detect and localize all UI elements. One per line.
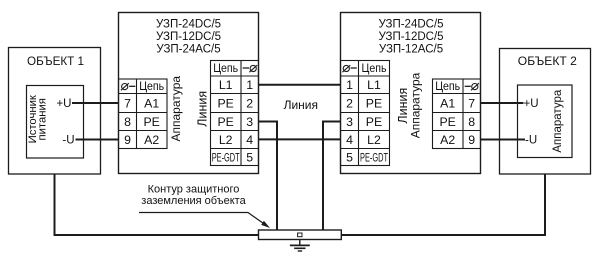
terminal -U of object 2: [525, 135, 537, 147]
svg-text:А1: А1: [144, 96, 159, 110]
U2 apparatus header terminal symbol –⌀: [465, 83, 479, 90]
U2 pin 7: [468, 96, 475, 110]
U1 pin 4: [246, 133, 253, 147]
svg-text:7: 7: [124, 96, 131, 110]
label U2 type УЗП-24DC/5 УЗП-12DC/5 УЗП-12AC/5: [378, 19, 443, 56]
U2 pin 4: [346, 133, 353, 147]
svg-text:А2: А2: [440, 133, 455, 147]
U1 pin 3: [246, 115, 253, 129]
svg-text:L2: L2: [367, 133, 381, 147]
U1 pin PE row3 label: [217, 115, 233, 129]
wire object 2 to earth bus: [341, 174, 545, 235]
U2 pin 3: [346, 115, 353, 129]
label Источник питания: [27, 95, 49, 143]
svg-text:4: 4: [246, 133, 253, 147]
U2 label Линия: [396, 88, 410, 124]
svg-text:УЗП-24АС/5: УЗП-24АС/5: [156, 44, 220, 56]
U1 pin 9 net А2: [144, 133, 159, 147]
U2 pin PE row3 label: [366, 115, 382, 129]
svg-text:PE: PE: [143, 115, 159, 129]
U1 apparatus-side terminal table grid: [119, 79, 168, 149]
svg-text:Аппаратура: Аппаратура: [552, 89, 564, 152]
device U1 УЗП enclosure: [119, 13, 259, 174]
svg-text:заземления объекта: заземления объекта: [141, 195, 246, 207]
svg-text:УЗП-12АС/5: УЗП-12АС/5: [379, 44, 443, 56]
svg-text:9: 9: [468, 133, 475, 147]
U1 apparatus header terminal symbol ⌀–: [121, 83, 135, 90]
U2 apparatus header label Цепь: [435, 79, 460, 93]
U1 line-side terminal table grid: [211, 61, 259, 166]
svg-text:Линия: Линия: [284, 98, 318, 112]
svg-text:3: 3: [246, 115, 253, 129]
U2 pin L1 label: [367, 78, 381, 92]
svg-text:PE-GDT: PE-GDT: [212, 152, 240, 164]
U2 pin 2: [346, 96, 353, 110]
wire L2 line conductor: [259, 138, 341, 140]
U1 line header terminal symbol –⌀: [243, 65, 258, 72]
svg-text:L2: L2: [219, 133, 233, 147]
svg-text:9: 9: [124, 133, 131, 147]
svg-text:PE: PE: [217, 96, 233, 110]
svg-text:УЗП-24DC/5: УЗП-24DC/5: [378, 19, 443, 31]
U1 label Линия: [195, 91, 209, 127]
apparatus box of object 2: [518, 85, 573, 158]
svg-text:1: 1: [246, 78, 253, 92]
svg-text:PE: PE: [366, 115, 382, 129]
svg-text:Цепь: Цепь: [139, 79, 164, 93]
annotation Контур защитного заземления объекта: [141, 184, 246, 208]
label ОБЪЕКТ 2: [518, 54, 577, 68]
wire PE right drop to earth bus: [323, 122, 341, 232]
U1 pin 2: [246, 96, 253, 110]
device U2 УЗП enclosure: [341, 13, 481, 174]
U2 line-side terminal table grid: [341, 61, 390, 166]
svg-text:L1: L1: [219, 78, 233, 92]
U1 pin 1: [246, 78, 253, 92]
U2 line header terminal symbol ⌀–: [342, 65, 356, 72]
svg-text:5: 5: [246, 150, 253, 164]
svg-text:+U: +U: [524, 98, 539, 110]
U2 pin 9: [468, 133, 475, 147]
U2 line header label Цепь: [362, 61, 387, 75]
U2 apparatus-side terminal table grid: [433, 79, 481, 149]
object 2 enclosure: [500, 49, 591, 175]
U2 pin PE label: [439, 115, 455, 129]
svg-text:7: 7: [468, 96, 475, 110]
U1 pin L2 label: [219, 133, 233, 147]
U1 apparatus header label Цепь: [139, 79, 164, 93]
U2 pin 1: [346, 78, 353, 92]
svg-text:Цепь: Цепь: [362, 61, 387, 75]
U2 label Аппаратура: [409, 72, 423, 138]
wire +U to pin 7: [72, 102, 119, 104]
svg-text:PE: PE: [439, 115, 455, 129]
U2 pin 5: [346, 150, 353, 164]
svg-text:PE: PE: [366, 96, 382, 110]
svg-text:8: 8: [468, 115, 475, 129]
svg-text:УЗП-24DC/5: УЗП-24DC/5: [156, 19, 221, 31]
U2 pin А2 label: [440, 133, 455, 147]
earth bus bar: [259, 230, 342, 240]
U1 pin L1 label: [219, 78, 233, 92]
label ОБЪЕКТ 1: [27, 54, 84, 68]
U1 pin PE-GDT label: [212, 152, 240, 164]
svg-text:-U: -U: [525, 135, 537, 147]
terminal +U of object 1: [56, 98, 71, 110]
U1 pin 8 net PE: [143, 115, 159, 129]
U2 pin А1 label: [440, 96, 455, 110]
U2 pin 8: [468, 115, 475, 129]
wire PE left drop to earth bus: [259, 122, 278, 232]
svg-text:Цепь: Цепь: [435, 79, 460, 93]
svg-text:ОБЪЕКТ 1: ОБЪЕКТ 1: [27, 54, 84, 68]
wire L1 line conductor: [259, 84, 341, 86]
U1 pin 7: [124, 96, 131, 110]
U2 pin PE-GDT label: [360, 152, 388, 164]
terminal +U of object 2: [524, 98, 539, 110]
svg-text:А1: А1: [440, 96, 455, 110]
svg-text:Контур защитного: Контур защитного: [148, 184, 240, 196]
svg-text:1: 1: [346, 78, 353, 92]
svg-text:Аппаратура: Аппаратура: [169, 76, 183, 142]
U1 pin 8: [124, 115, 131, 129]
svg-text:+U: +U: [56, 98, 71, 110]
U1 pin 5: [246, 150, 253, 164]
wire object 1 to earth bus: [55, 174, 259, 235]
annotation leader line and arrow to earth bus: [139, 213, 270, 229]
svg-text:УЗП-12DC/5: УЗП-12DC/5: [378, 31, 443, 43]
label Аппаратура object 2: [552, 89, 564, 152]
power source box: [27, 86, 84, 159]
svg-text:4: 4: [346, 133, 353, 147]
svg-text:Линия: Линия: [195, 91, 209, 127]
svg-text:5: 5: [346, 150, 353, 164]
earth bus bolt square: [298, 233, 302, 237]
U1 pin 7 net А1: [144, 96, 159, 110]
U1 line header label Цепь: [213, 61, 238, 75]
svg-text:L1: L1: [367, 78, 381, 92]
U1 label Аппаратура: [169, 76, 183, 142]
object 1 enclosure: [9, 48, 101, 175]
svg-text:PE-GDT: PE-GDT: [360, 152, 388, 164]
U1 pin PE row2 label: [217, 96, 233, 110]
svg-text:-U: -U: [62, 135, 74, 147]
svg-text:Аппаратура: Аппаратура: [409, 72, 423, 138]
svg-text:3: 3: [346, 115, 353, 129]
wire -U to pin 9: [76, 139, 119, 141]
svg-text:2: 2: [346, 96, 353, 110]
terminal -U of object 1: [62, 135, 74, 147]
label U1 type УЗП-24DC/5 УЗП-12DC/5 УЗП-24AC/5: [156, 19, 221, 56]
ground symbol: [290, 240, 310, 251]
U2 pin L2 label: [367, 133, 381, 147]
svg-text:УЗП-12DC/5: УЗП-12DC/5: [156, 31, 221, 43]
svg-text:А2: А2: [144, 133, 159, 147]
U1 pin 9: [124, 133, 131, 147]
svg-text:Цепь: Цепь: [213, 61, 238, 75]
U2 pin PE row2 label: [366, 96, 382, 110]
wire pin 7 to +U object 2: [481, 102, 524, 104]
svg-text:8: 8: [124, 115, 131, 129]
wire pin 9 to -U object 2: [481, 139, 526, 141]
svg-text:питания: питания: [37, 98, 49, 140]
svg-text:PE: PE: [217, 115, 233, 129]
svg-text:ОБЪЕКТ 2: ОБЪЕКТ 2: [518, 54, 577, 68]
label Линия middle: [284, 98, 318, 112]
svg-text:2: 2: [246, 96, 253, 110]
